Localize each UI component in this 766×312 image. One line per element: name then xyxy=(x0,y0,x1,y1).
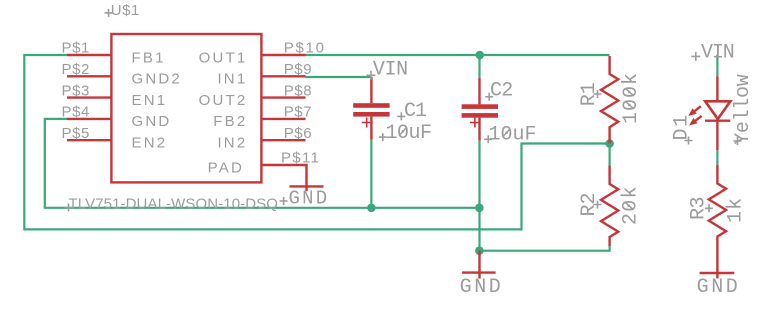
svg-text:100k: 100k xyxy=(620,72,643,124)
svg-text:GND: GND xyxy=(289,188,330,210)
svg-text:EN1: EN1 xyxy=(132,92,168,109)
svg-text:GND: GND xyxy=(697,276,741,299)
svg-text:10uF: 10uF xyxy=(386,122,432,145)
svg-text:P$8: P$8 xyxy=(284,82,313,99)
svg-text:C2: C2 xyxy=(490,80,513,103)
svg-text:U$1: U$1 xyxy=(111,2,140,19)
svg-text:P$1: P$1 xyxy=(62,40,91,57)
svg-text:P$6: P$6 xyxy=(284,125,313,142)
svg-text:P$9: P$9 xyxy=(284,61,313,78)
svg-text:R1: R1 xyxy=(578,82,601,106)
svg-text:P$3: P$3 xyxy=(62,82,91,99)
svg-text:R2: R2 xyxy=(578,192,601,216)
svg-text:P$5: P$5 xyxy=(62,125,91,142)
svg-text:VIN: VIN xyxy=(373,59,408,82)
svg-text:P$7: P$7 xyxy=(284,104,313,121)
svg-text:P$11: P$11 xyxy=(281,150,320,167)
svg-text:TLV751-DUAL-WSON-10-DSQ: TLV751-DUAL-WSON-10-DSQ xyxy=(69,196,279,213)
svg-text:FB2: FB2 xyxy=(213,113,247,130)
svg-text:EN2: EN2 xyxy=(132,135,168,152)
svg-text:OUT2: OUT2 xyxy=(199,92,248,109)
svg-text:D1: D1 xyxy=(670,113,693,140)
svg-text:1k: 1k xyxy=(725,197,748,223)
svg-text:VIN: VIN xyxy=(701,42,734,65)
svg-text:20k: 20k xyxy=(620,185,643,225)
svg-text:P$4: P$4 xyxy=(62,104,91,121)
svg-text:C1: C1 xyxy=(404,100,427,123)
svg-text:10uF: 10uF xyxy=(489,123,537,146)
svg-text:IN2: IN2 xyxy=(217,135,247,152)
svg-text:P$2: P$2 xyxy=(62,61,91,78)
svg-text:OUT1: OUT1 xyxy=(199,49,248,66)
svg-text:GND: GND xyxy=(460,276,504,299)
svg-text:GND2: GND2 xyxy=(132,71,182,88)
svg-text:Yellow: Yellow xyxy=(732,74,755,145)
svg-text:IN1: IN1 xyxy=(217,71,247,88)
svg-text:P$10: P$10 xyxy=(284,40,326,57)
svg-text:R3: R3 xyxy=(688,197,711,220)
svg-text:PAD: PAD xyxy=(208,159,244,176)
svg-text:FB1: FB1 xyxy=(132,49,166,66)
svg-text:GND: GND xyxy=(132,113,172,130)
